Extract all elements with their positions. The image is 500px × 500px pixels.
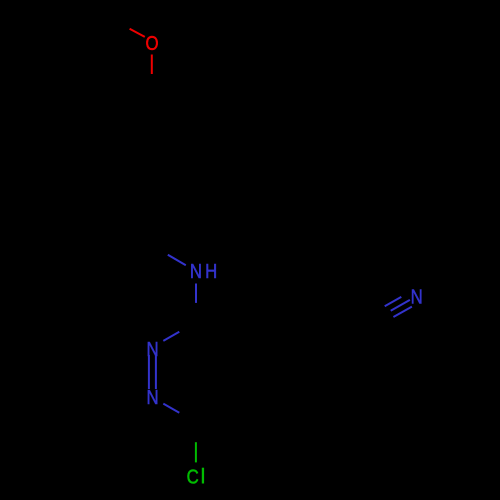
svg-text:N: N bbox=[190, 259, 202, 282]
svg-text:N: N bbox=[146, 385, 158, 408]
svg-text:N: N bbox=[146, 337, 158, 360]
svg-text:O: O bbox=[145, 31, 158, 54]
svg-text:C: C bbox=[187, 465, 199, 488]
svg-text:N: N bbox=[411, 285, 423, 308]
svg-text:H: H bbox=[205, 259, 217, 282]
